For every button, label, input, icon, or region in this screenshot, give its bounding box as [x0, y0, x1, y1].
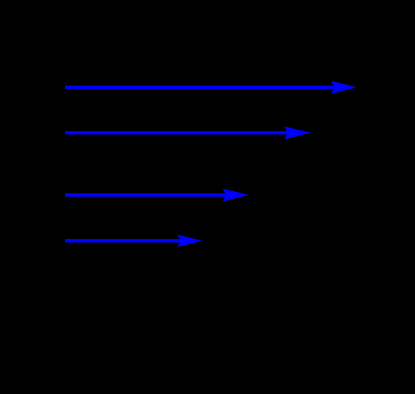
velocity vector arrow 1 overdraw pass (sharpens antialiased edges): [65, 81, 357, 94]
velocity vector arrow 3 overdraw pass (sharpens antialiased edges): [65, 189, 249, 202]
velocity vector arrow 2 overdraw pass (sharpens antialiased edges): [65, 126, 311, 139]
velocity vector arrow 2: [65, 126, 311, 139]
velocity vector arrow 4 overdraw pass (sharpens antialiased edges): [65, 235, 202, 247]
velocity vector arrow 3: [65, 189, 249, 202]
velocity vector arrow 4: [65, 235, 202, 247]
velocity vector arrow 1: [65, 81, 357, 94]
